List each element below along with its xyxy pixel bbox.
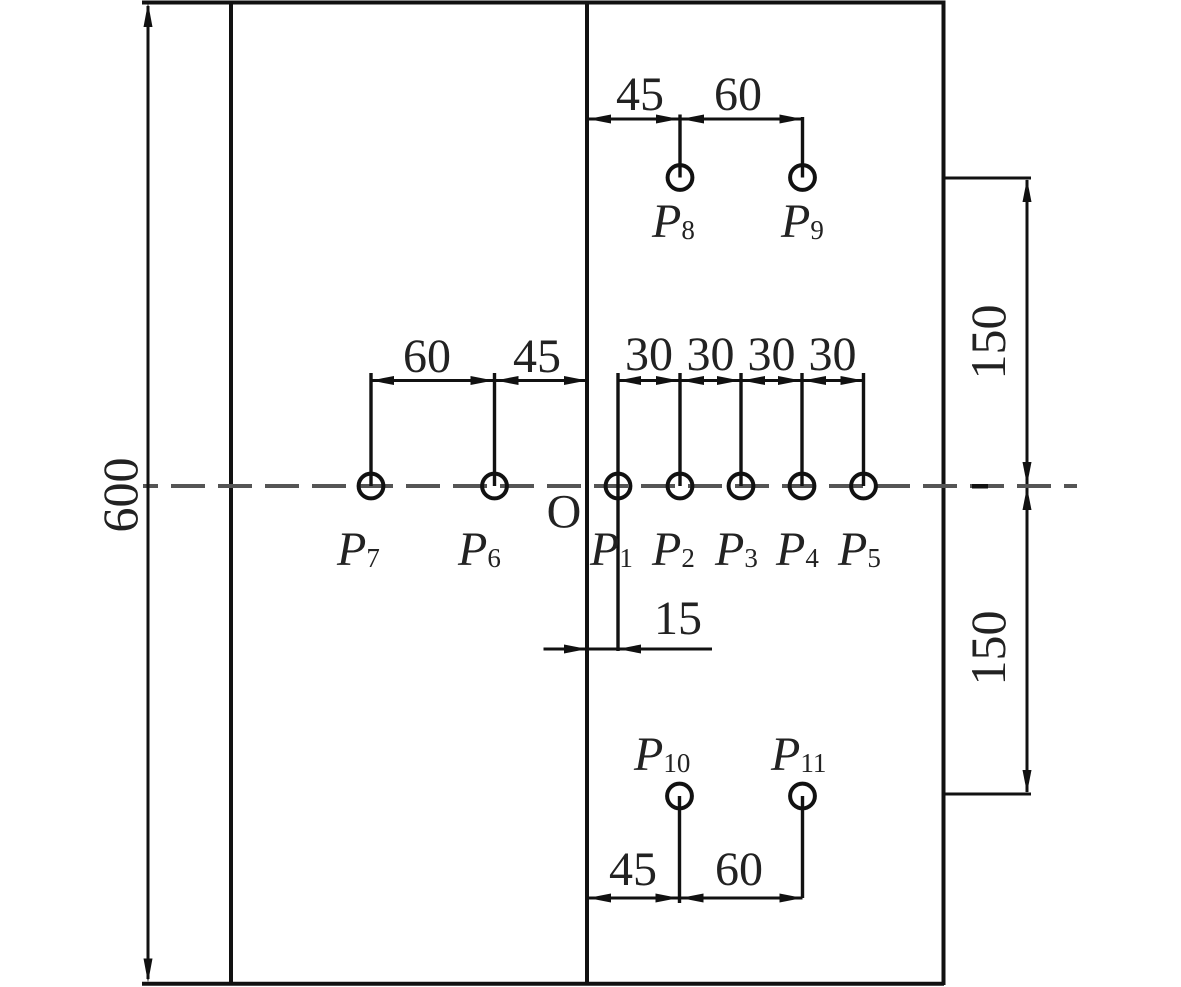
svg-text:15: 15 — [654, 592, 702, 645]
svg-text:O: O — [547, 486, 582, 539]
svg-text:P1: P1 — [589, 523, 633, 576]
point P10 circle — [667, 784, 692, 809]
P2 extension tick — [678, 373, 681, 486]
svg-text:600: 600 — [92, 458, 148, 533]
point P3 circle — [729, 474, 754, 499]
point P7 circle — [359, 474, 384, 499]
dimension line 30x4 mid-right — [618, 376, 864, 385]
dimension 600 line — [144, 3, 153, 983]
svg-text:45: 45 — [609, 843, 657, 896]
horizontal center axis (dashed) — [143, 484, 1077, 488]
plate left edge — [229, 1, 233, 986]
svg-text:P4: P4 — [775, 523, 819, 576]
P10 extension tick — [678, 796, 681, 903]
svg-text:30: 30 — [748, 328, 796, 381]
svg-text:P8: P8 — [651, 195, 695, 248]
svg-text:45: 45 — [513, 330, 561, 383]
dimension 150 upper line — [1023, 179, 1032, 485]
P5 extension tick — [862, 373, 865, 486]
point P1 circle — [606, 474, 631, 499]
svg-text:P7: P7 — [336, 523, 380, 576]
point P6 circle — [482, 474, 507, 499]
extension line top right — [944, 177, 1031, 180]
svg-text:P11: P11 — [770, 728, 826, 781]
svg-text:150: 150 — [960, 611, 1016, 686]
svg-text:30: 30 — [809, 328, 857, 381]
dimension line 45/60 bottom — [588, 894, 803, 903]
point P4 circle — [790, 474, 815, 499]
point P8 circle — [668, 165, 693, 190]
P8 extension tick — [678, 115, 681, 178]
svg-text:P2: P2 — [651, 523, 695, 576]
svg-text:P9: P9 — [780, 195, 824, 248]
point P2 circle — [668, 474, 693, 499]
svg-text:P6: P6 — [457, 523, 501, 576]
svg-text:P3: P3 — [714, 523, 758, 576]
dimension line 60/45 mid-left — [371, 376, 587, 385]
dimension 15 — [544, 645, 713, 654]
extension line bottom right — [944, 793, 1031, 796]
dimension 150 lower line — [1023, 487, 1032, 793]
P3 extension tick — [739, 373, 742, 486]
plate top edge — [142, 1, 944, 5]
dimension line 45/60 top — [588, 115, 803, 124]
P11 extension tick — [801, 796, 804, 898]
svg-text:30: 30 — [625, 328, 673, 381]
svg-text:60: 60 — [715, 843, 763, 896]
point P5 circle — [851, 474, 876, 499]
svg-text:60: 60 — [403, 330, 451, 383]
center axis short black dash — [972, 484, 988, 489]
P1 extension tick — [616, 373, 619, 651]
svg-text:45: 45 — [616, 68, 664, 121]
plate right edge — [942, 1, 946, 986]
svg-text:60: 60 — [714, 68, 762, 121]
P7 extension tick — [369, 373, 372, 486]
point P9 circle — [790, 165, 815, 190]
svg-text:P5: P5 — [837, 523, 881, 576]
plate bottom edge — [142, 982, 944, 986]
point P11 circle — [790, 784, 815, 809]
P6 extension tick — [493, 373, 496, 486]
svg-text:150: 150 — [960, 305, 1016, 380]
P9 extension tick — [801, 117, 804, 178]
weld center line — [585, 1, 589, 986]
P4 extension tick — [800, 373, 803, 486]
svg-text:30: 30 — [687, 328, 735, 381]
svg-text:P10: P10 — [633, 728, 690, 781]
